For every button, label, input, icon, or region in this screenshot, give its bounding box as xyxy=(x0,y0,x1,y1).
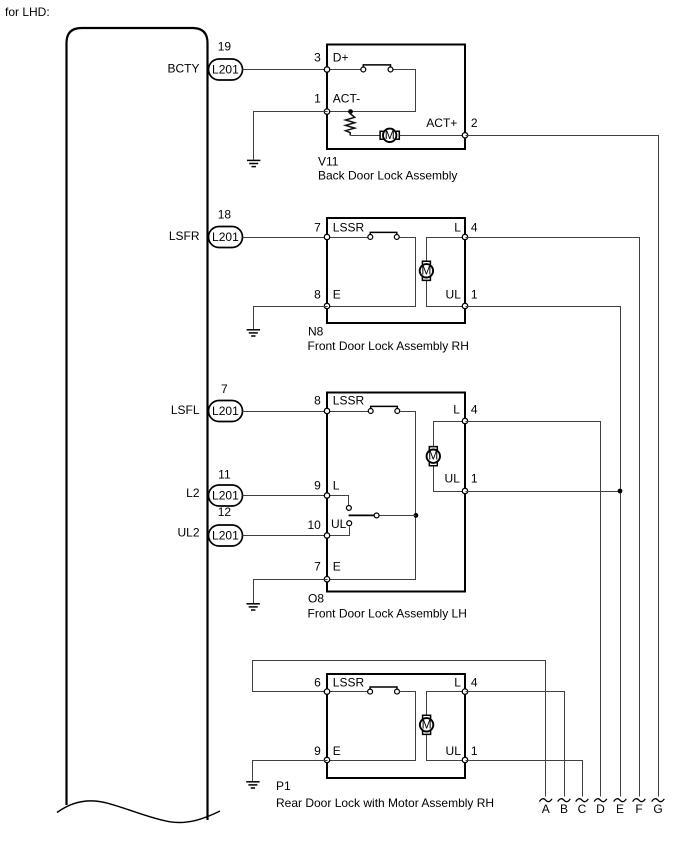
svg-text:7: 7 xyxy=(314,221,321,235)
N8 pin 1 terminal xyxy=(462,303,467,308)
svg-text:B: B xyxy=(560,802,568,816)
wire O8 pin 7 to ground xyxy=(254,580,328,604)
V11 door lock motor M xyxy=(380,128,399,142)
svg-text:A: A xyxy=(542,802,550,816)
door control ECU body (large rounded outline, torn bottom) xyxy=(67,28,208,820)
svg-text:D: D xyxy=(596,802,605,816)
wire P1 motor branch L to UL xyxy=(427,692,466,761)
svg-text:1: 1 xyxy=(471,744,478,758)
svg-text:4: 4 xyxy=(471,675,478,689)
svg-text:L201: L201 xyxy=(212,63,239,77)
svg-text:LSFR: LSFR xyxy=(169,229,200,243)
connector break symbol at E xyxy=(614,799,627,802)
wire BCTY to V11 pin 3 xyxy=(243,69,328,71)
O8 pin 7 terminal xyxy=(324,577,329,582)
N8 pin 8 terminal xyxy=(324,303,329,308)
svg-text:Front Door Lock Assembly LH: Front Door Lock Assembly LH xyxy=(308,607,467,621)
svg-text:LSSR: LSSR xyxy=(333,394,365,408)
wire UL2 to O8 pin 10 xyxy=(243,535,328,537)
P1 pin 9 terminal xyxy=(324,757,329,762)
svg-text:1: 1 xyxy=(471,288,478,302)
wire N8 pin 4 to connector F xyxy=(466,238,640,797)
svg-text:E: E xyxy=(333,560,341,574)
ground below N8 xyxy=(247,330,260,336)
svg-text:8: 8 xyxy=(314,394,321,408)
wire V11 pin 2 to connector G xyxy=(466,136,659,797)
ground below P1 xyxy=(246,782,259,788)
wire P1 pin 1 to connector C xyxy=(466,761,583,797)
wire N8 pin 8 to ground xyxy=(254,307,328,330)
svg-text:M: M xyxy=(385,128,395,142)
connector L201 (BCTY pin 19) xyxy=(209,59,243,80)
P1 pin 1 terminal xyxy=(462,757,467,762)
connector break symbol at A xyxy=(539,799,552,802)
wire P1 pin 6 to connector A xyxy=(253,661,546,797)
wire N8 motor branch L to UL xyxy=(427,238,466,307)
svg-text:L: L xyxy=(453,403,460,417)
wire N8 pin 1 to connector E xyxy=(466,307,621,797)
svg-text:7: 7 xyxy=(314,560,321,574)
O8 pin 8 terminal xyxy=(324,408,329,413)
P1 lock position switch xyxy=(368,687,400,694)
svg-text:L201: L201 xyxy=(212,489,239,503)
svg-text:LSSR: LSSR xyxy=(333,675,365,689)
svg-text:ACT+: ACT+ xyxy=(426,116,457,130)
V11 pin 3 terminal xyxy=(324,67,329,72)
svg-text:M: M xyxy=(428,449,438,463)
wire LSFL to O8 pin 8 xyxy=(243,411,328,413)
junction on V11 ACT- net xyxy=(348,109,353,114)
wire O8 pin 1 to E net xyxy=(466,491,621,493)
O8 selector L contact xyxy=(346,505,351,510)
svg-text:3: 3 xyxy=(314,51,321,65)
svg-text:L2: L2 xyxy=(186,486,200,500)
svg-text:2: 2 xyxy=(471,116,478,130)
wire O8 pin 10 to UL contact xyxy=(328,527,350,536)
connector L201 (L2 pin 11) xyxy=(209,485,243,506)
ground below O8 xyxy=(247,604,260,610)
O8 selector blade (neutral) xyxy=(349,514,374,516)
svg-text:E: E xyxy=(333,744,341,758)
svg-text:7: 7 xyxy=(221,382,228,396)
svg-text:L201: L201 xyxy=(212,529,239,543)
connector break symbol at G xyxy=(652,799,665,802)
svg-text:UL2: UL2 xyxy=(177,526,199,540)
wire O8 pin 9 to L contact xyxy=(328,496,349,506)
svg-text:D+: D+ xyxy=(333,51,349,65)
connector L201 (UL2 pin 12) xyxy=(209,525,243,546)
resistor inside V11 xyxy=(346,112,355,136)
torn-edge wavy line at ECU bottom xyxy=(57,801,220,823)
O8 selector UL contact xyxy=(347,521,352,526)
wire P1 pin 4 to connector B xyxy=(466,692,565,797)
svg-text:L: L xyxy=(454,221,461,235)
svg-text:10: 10 xyxy=(307,518,321,532)
svg-text:19: 19 xyxy=(218,40,232,54)
wire resistor to motor to V11 pin 2 xyxy=(351,135,466,137)
svg-text:4: 4 xyxy=(471,221,478,235)
svg-text:N8: N8 xyxy=(308,324,324,338)
svg-text:for LHD:: for LHD: xyxy=(5,5,50,19)
svg-text:11: 11 xyxy=(218,468,231,482)
svg-text:1: 1 xyxy=(314,92,321,106)
P1 pin 4 terminal xyxy=(462,689,467,694)
svg-text:F: F xyxy=(635,802,642,816)
svg-text:P1: P1 xyxy=(276,779,291,793)
svg-text:M: M xyxy=(422,717,432,731)
svg-text:E: E xyxy=(333,288,341,302)
wire P1 switch to pin 9 E net xyxy=(328,692,416,761)
svg-text:Front Door Lock Assembly RH: Front Door Lock Assembly RH xyxy=(308,339,469,353)
svg-text:9: 9 xyxy=(314,478,321,492)
svg-text:L201: L201 xyxy=(212,230,239,244)
wire switch to V11 pin 1 net xyxy=(328,70,416,112)
wire O8 switch to pin 7 E net xyxy=(328,412,416,580)
rear door lock with motor assembly RH P1 box xyxy=(327,674,465,778)
svg-text:18: 18 xyxy=(218,207,232,221)
svg-text:Rear Door Lock with Motor Asse: Rear Door Lock with Motor Assembly RH xyxy=(276,796,494,810)
N8 pin 7 terminal xyxy=(324,234,329,239)
junction of O8 pin 1 with connector E wire xyxy=(618,489,623,494)
svg-text:L: L xyxy=(333,478,340,492)
svg-text:V11: V11 xyxy=(318,154,339,168)
N8 pin 4 terminal xyxy=(462,234,467,239)
wire V11 pin 3 to door-lock switch xyxy=(328,69,361,71)
wire O8 pin 8 to switch xyxy=(328,411,369,413)
svg-text:LSFL: LSFL xyxy=(171,403,200,417)
V11 pin 1 terminal xyxy=(324,109,329,114)
wire V11 pin 1 to ground xyxy=(254,112,328,160)
svg-text:UL: UL xyxy=(446,288,462,302)
connector break symbol at B xyxy=(558,799,571,802)
O8 pin 10 terminal xyxy=(324,533,329,538)
svg-text:L201: L201 xyxy=(212,404,239,418)
svg-text:12: 12 xyxy=(218,505,232,519)
P1 door lock motor M xyxy=(420,715,433,734)
connector break symbol at C xyxy=(576,799,589,802)
svg-text:L: L xyxy=(454,675,461,689)
svg-text:6: 6 xyxy=(314,675,321,689)
O8 lock position switch xyxy=(368,406,399,413)
wire N8 switch to pin 8 E net xyxy=(328,238,416,307)
P1 pin 6 terminal xyxy=(324,689,329,694)
svg-text:LSSR: LSSR xyxy=(333,221,365,235)
wire N8 pin 7 to switch xyxy=(328,237,368,239)
front door lock assembly RH N8 box xyxy=(327,218,465,323)
junction on O8 E net xyxy=(414,513,419,518)
wire P1 pin 9 to ground xyxy=(253,761,328,782)
connector break symbol at D xyxy=(594,799,607,802)
svg-text:ACT-: ACT- xyxy=(333,92,360,106)
svg-text:E: E xyxy=(616,802,624,816)
ground below V11 xyxy=(247,160,260,166)
O8 door lock motor M xyxy=(427,447,440,466)
svg-text:C: C xyxy=(578,802,587,816)
wire P1 pin 6 to switch xyxy=(328,691,368,693)
svg-text:BCTY: BCTY xyxy=(167,62,199,76)
O8 pin 4 terminal xyxy=(462,418,467,423)
svg-text:4: 4 xyxy=(471,403,478,417)
back door lock assembly V11 box xyxy=(327,45,465,150)
svg-text:UL: UL xyxy=(446,744,462,758)
svg-text:G: G xyxy=(653,802,662,816)
O8 pin 1 terminal xyxy=(462,488,467,493)
svg-text:8: 8 xyxy=(314,288,321,302)
wire LSFR to N8 pin 7 xyxy=(243,237,328,239)
V11 lock position switch xyxy=(361,65,393,72)
V11 pin 2 terminal xyxy=(462,133,467,138)
svg-text:Back Door Lock Assembly: Back Door Lock Assembly xyxy=(318,169,457,183)
N8 lock position switch xyxy=(368,232,399,239)
connector L201 (LSFR pin 18) xyxy=(209,227,243,248)
wire L2 to O8 pin 9 xyxy=(243,495,328,497)
wire O8 selector common to E net xyxy=(380,515,416,517)
connector break symbol at F xyxy=(633,799,646,802)
connector L201 (LSFL pin 7) xyxy=(209,401,243,422)
wire O8 motor branch L to UL xyxy=(434,422,466,492)
svg-text:9: 9 xyxy=(314,744,321,758)
wire O8 pin 4 to connector D xyxy=(466,422,601,797)
svg-text:M: M xyxy=(421,263,431,277)
O8 pin 9 terminal xyxy=(324,493,329,498)
N8 door lock motor M xyxy=(420,261,433,280)
svg-text:1: 1 xyxy=(471,471,478,485)
front door lock assembly LH O8 box xyxy=(327,393,465,592)
svg-text:UL: UL xyxy=(331,517,347,531)
svg-text:UL: UL xyxy=(445,471,461,485)
svg-text:O8: O8 xyxy=(308,591,324,605)
